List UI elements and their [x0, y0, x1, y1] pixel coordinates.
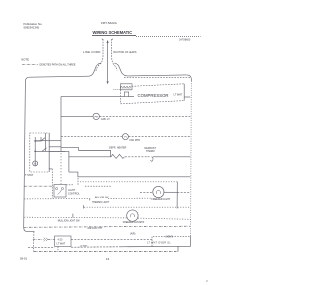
- bottom left dashed vertical: [33, 232, 35, 252]
- svg-text:ADJ HTR SW: ADJ HTR SW: [95, 196, 109, 199]
- svg-text:LINE CORD: LINE CORD: [83, 50, 101, 54]
- svg-text:AIR DUCT HT: AIR DUCT HT: [88, 227, 104, 230]
- row B tick: [72, 214, 74, 218]
- connector wire y147.6: [61, 148, 79, 151]
- defrost heater wire: [69, 156, 111, 158]
- svg-text:COMPRESSOR: COMPRESSOR: [138, 93, 169, 98]
- compressor box right edge: [183, 84, 185, 101]
- bottom right dashed box: [152, 236, 190, 246]
- cabinet top right corner: [186, 75, 191, 81]
- svg-text:59-91: 59-91: [20, 257, 28, 261]
- svg-text:FRT-5322A: FRT-5322A: [101, 21, 118, 25]
- svg-text:LT WHT: LT WHT: [80, 245, 88, 247]
- svg-text:WIRING SCHEMATIC: WIRING SCHEMATIC: [93, 30, 133, 35]
- junction dot 2: [34, 151, 36, 153]
- vertical x68.9: [68, 151, 70, 172]
- t-stat switch vertical: [40, 137, 42, 141]
- wire from door switch up: [66, 184, 78, 186]
- lamp filament: [95, 116, 98, 117]
- svg-text:CAB. LT.: CAB. LT.: [101, 118, 111, 121]
- bottom wire left stub: [28, 247, 55, 249]
- svg-text:T STAT: T STAT: [25, 174, 34, 177]
- vertical wire x177.3: [176, 182, 178, 209]
- freezer light in dash: [140, 191, 153, 193]
- svg-text:DENOTES PATH ON ALL THREE: DENOTES PATH ON ALL THREE: [40, 64, 76, 67]
- up arrow: [107, 40, 109, 43]
- bottom terminal box: [55, 236, 71, 247]
- tick on y198 row: [89, 198, 91, 200]
- relay box: [120, 84, 132, 90]
- cab lamp wire right dashed: [99, 115, 190, 117]
- compressor dashed box: [121, 84, 185, 104]
- svg-text:(VENT): (VENT): [166, 237, 174, 239]
- cab lamp circle: [93, 113, 99, 119]
- t-stat inner vertical 3: [48, 133, 50, 172]
- cabinet right border lower solid: [187, 235, 191, 246]
- cabinet right border dotted: [190, 81, 193, 235]
- t-stat inner vertical wire: [34, 137, 36, 166]
- svg-text:ROUTING OF LEADS: ROUTING OF LEADS: [114, 51, 137, 54]
- wire row2 to right: [49, 150, 65, 152]
- compressor compartment dashed top: [124, 76, 190, 78]
- dashed line y198.3: [24, 198, 90, 200]
- wire A from t-stat to inner border: [49, 146, 61, 148]
- heater zigzag: [111, 154, 125, 158]
- wire stub inside compressor box: [129, 96, 134, 98]
- door switch box: [54, 184, 66, 197]
- stub dashed drop: [51, 169, 53, 198]
- heater wire dashed: [125, 156, 148, 158]
- wire from box row1 to inner border: [49, 140, 61, 142]
- bottom wire from box right: [71, 246, 120, 248]
- dashed row B left: [24, 216, 127, 219]
- defrost stat wire right: [153, 156, 190, 158]
- wire C y150.5: [79, 151, 111, 157]
- cabinet outline top border with wire hop: [24, 76, 89, 231]
- relay feed dotted: [114, 89, 121, 91]
- box right exit wire: [71, 239, 152, 241]
- inner cabinet left border: [60, 97, 62, 152]
- inner cabinet left border dashed lower: [60, 153, 62, 184]
- freezer fan circle: [127, 210, 138, 221]
- line cord left conductor (dashed): [96, 39, 103, 71]
- svg-text:FREEZER LIGHT: FREEZER LIGHT: [151, 198, 170, 201]
- dashed y198 right segment: [108, 197, 151, 199]
- freezer light circle: [153, 186, 164, 197]
- dashed row B right: [138, 218, 191, 219]
- t-stat switch arm 1: [35, 138, 45, 141]
- switch circle 1: [56, 188, 58, 190]
- svg-text:FAN MTR: FAN MTR: [130, 139, 141, 142]
- svg-text:MULLION LIGHT SW: MULLION LIGHT SW: [58, 221, 81, 223]
- row A tick: [83, 205, 85, 208]
- switch circle 2: [61, 188, 63, 190]
- t-stat wire row 2: [35, 150, 49, 152]
- svg-text:(AIR): (AIR): [130, 233, 136, 236]
- svg-text:MTR RLY: MTR RLY: [122, 88, 132, 90]
- svg-text:LT WHT: LT WHT: [57, 242, 66, 245]
- wire to terminal box: [33, 238, 44, 240]
- wire into door switch: [24, 185, 54, 187]
- rail hook up: [177, 246, 179, 251]
- dashed line y226.6: [24, 226, 190, 227]
- legend dash-dot sample: [22, 63, 38, 65]
- down arrow: [107, 81, 109, 84]
- freezer area dashed line y181.8: [80, 181, 177, 183]
- wire hop left curve: [89, 63, 102, 76]
- t-stat wire row 1 out: [35, 140, 49, 142]
- svg-text:CONTROL: CONTROL: [68, 192, 80, 195]
- fan glyph: [124, 136, 127, 137]
- wire hop right curve: [114, 63, 186, 76]
- condenser fan circle: [122, 134, 128, 140]
- svg-text:4-20: 4-20: [58, 239, 63, 242]
- freezer light filament: [156, 190, 160, 194]
- dashed row A y207: [84, 206, 191, 208]
- wire chevron to box: [48, 238, 55, 240]
- door switch riser: [77, 177, 79, 185]
- svg-text:THERMO LIGHT: THERMO LIGHT: [92, 202, 110, 204]
- compressor out wire to right border: [184, 96, 190, 98]
- connector chevrons: [44, 238, 48, 241]
- conductor curl right: [112, 38, 113, 40]
- bottom border solid part: [120, 245, 187, 248]
- bottom dash-dot rail: [34, 251, 178, 253]
- freezer light out wire: [164, 191, 177, 193]
- fan wire dashed left: [61, 136, 122, 138]
- svg-text:FREEZER FAN MTR: FREEZER FAN MTR: [123, 221, 145, 224]
- switch arm 2: [42, 148, 47, 152]
- cab lamp wire left: [61, 115, 93, 117]
- stray speck: [206, 280, 207, 281]
- title solid underline: [92, 35, 136, 37]
- svg-text:NOTE: NOTE: [21, 57, 29, 61]
- svg-text:DEFR. HEATER: DEFR. HEATER: [109, 147, 127, 150]
- t-stat lamp circle: [33, 161, 38, 166]
- line cord right conductor (dashed): [112, 39, 117, 71]
- junction dot 1: [34, 140, 36, 142]
- svg-text:LT WHT: LT WHT: [174, 94, 183, 97]
- svg-text:16: 16: [106, 257, 110, 261]
- fan wire dashed right: [128, 136, 190, 138]
- overload protector box: [124, 92, 128, 97]
- switch lever: [58, 190, 62, 195]
- title dotted underline: [136, 35, 201, 37]
- svg-text:LT WHT OVER GL: LT WHT OVER GL: [147, 242, 171, 244]
- freezer fan glyph: [130, 214, 134, 217]
- freezer light out dash to border: [177, 191, 190, 193]
- thermostat dashed box: [30, 133, 49, 172]
- mid dashed stub y186: [85, 185, 112, 187]
- publication number block: [24, 22, 43, 30]
- compressor feed wire: [61, 96, 124, 98]
- svg-text:5995341345: 5995341345: [24, 26, 40, 30]
- t-stat lower stub: [49, 168, 52, 170]
- svg-text:JA708600: JA708600: [179, 39, 191, 42]
- t-stat inner vertical 2: [45, 133, 47, 151]
- rail tick to box: [57, 247, 59, 252]
- defrost thermostat symbol: [148, 157, 154, 161]
- line cord center conductor: [107, 41, 109, 81]
- wire B from t-stat y151.4: [49, 150, 69, 152]
- t-stat lamp inner tick: [34, 163, 36, 165]
- svg-text:THERM: THERM: [146, 150, 155, 153]
- lower feed wire: [69, 172, 190, 177]
- conductor curl left: [102, 38, 103, 40]
